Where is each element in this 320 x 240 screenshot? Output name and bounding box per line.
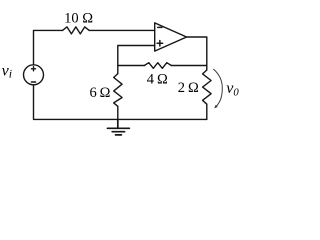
svg-text:10 Ω: 10 Ω — [64, 11, 93, 27]
wire source top to 10-ohm resistor — [34, 30, 63, 65]
op-amp plus input mark — [157, 41, 163, 46]
v0 arrowhead — [214, 105, 218, 108]
wire 6-ohm to bottom rail — [117, 106, 119, 119]
resistor R2 4 ohm — [144, 63, 171, 69]
wire 4-ohm resistor to node B — [171, 65, 207, 67]
svg-text:4 Ω: 4 Ω — [147, 71, 168, 87]
svg-text:2 Ω: 2 Ω — [178, 80, 199, 96]
bottom rail wire — [34, 85, 207, 120]
voltage source minus mark — [31, 81, 35, 83]
wire 10-ohm to op-amp inverting input — [89, 29, 155, 31]
wire op-amp output to node B — [187, 37, 207, 70]
wire node A to 4-ohm resistor — [118, 65, 145, 67]
op-amp U1 — [155, 23, 187, 51]
resistor R4 2 ohm — [203, 70, 212, 104]
resistor R3 6 ohm — [114, 74, 122, 107]
op-amp minus input mark — [158, 26, 162, 28]
wire op-amp noninverting input to node A — [118, 46, 155, 74]
wire 2-ohm to bottom rail — [206, 104, 208, 119]
voltage source Vi — [24, 65, 44, 85]
v0 reference arrow — [214, 69, 223, 107]
svg-text:v0: v0 — [226, 80, 239, 98]
svg-text:vi: vi — [2, 63, 12, 81]
voltage source plus mark — [31, 67, 35, 71]
svg-text:6 Ω: 6 Ω — [90, 85, 111, 101]
ground — [107, 119, 129, 134]
resistor R1 10 ohm — [63, 27, 90, 34]
